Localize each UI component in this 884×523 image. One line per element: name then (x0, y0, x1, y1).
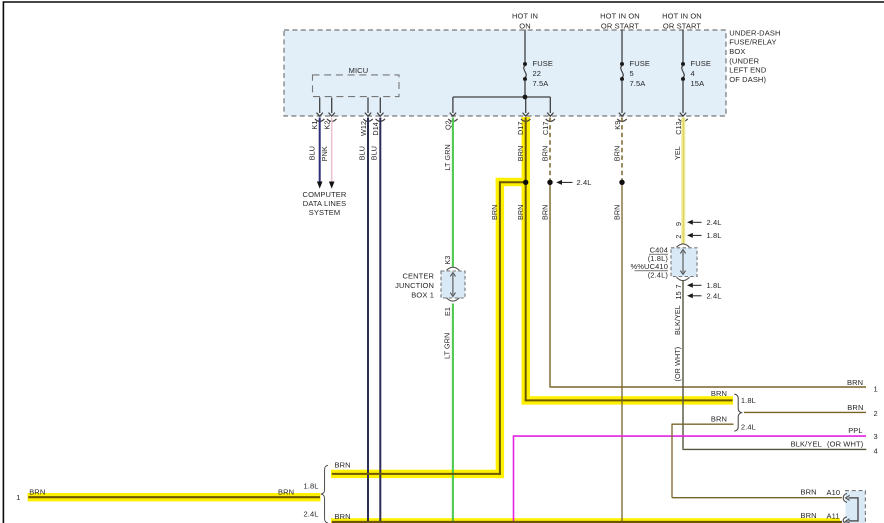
wire YEL C13 (673, 118, 684, 244)
brace 1.8L into circuit 2 (711, 389, 756, 431)
power label HOT IN ON OR START (fuse 5) (600, 11, 640, 30)
svg-text:W12: W12 (359, 121, 368, 136)
wire MICU pin K1 (319, 98, 321, 114)
pin K2 (327, 113, 336, 122)
wire MICU pin W12 (367, 98, 369, 114)
svg-text:K2: K2 (323, 121, 332, 130)
svg-text:BRN: BRN (801, 488, 817, 497)
wire BRN circuit 2 (744, 411, 866, 413)
wire BLU W12 (357, 118, 368, 523)
right edge circuit labels (791, 378, 878, 456)
pin K9 (617, 113, 626, 122)
svg-text:BRN: BRN (847, 378, 863, 387)
svg-text:K9: K9 (613, 121, 622, 130)
svg-text:HOT IN: HOT IN (512, 11, 538, 20)
svg-text:4: 4 (691, 69, 695, 78)
fuse 4 15A (681, 59, 711, 88)
svg-text:5: 5 (630, 69, 634, 78)
wire fuse 4 to pin C13 (682, 80, 684, 113)
svg-text:A10: A10 (827, 488, 841, 497)
pin 15 annotation 2.4L (674, 291, 722, 300)
svg-text:BRN: BRN (540, 146, 549, 161)
svg-text:K1: K1 (310, 121, 319, 130)
pin Q2 (448, 113, 457, 122)
wire BLK/YEL (OR WHT) / circuit 4 (673, 281, 866, 450)
highlighted wire BRN branch (1.8L riser) (490, 181, 526, 475)
svg-text:(UNDER: (UNDER (729, 56, 759, 65)
svg-text:7: 7 (674, 284, 683, 288)
MICU module box (313, 66, 400, 97)
wire HOT feed to fuse 22 (524, 30, 526, 64)
svg-text:15A: 15A (691, 79, 705, 88)
svg-text:1.8L: 1.8L (707, 281, 722, 290)
pin K1 (315, 113, 324, 122)
svg-text:9: 9 (674, 222, 683, 226)
svg-text:Q2: Q2 (443, 120, 452, 130)
svg-text:K3: K3 (443, 256, 452, 265)
label 2.4L arrow at C17 (556, 178, 591, 187)
pin 7 annotation 1.8L (674, 281, 722, 290)
svg-text:1.8L: 1.8L (304, 482, 319, 491)
svg-text:FUSE: FUSE (533, 59, 553, 68)
svg-text:HOT IN ON: HOT IN ON (662, 11, 702, 20)
svg-text:YEL: YEL (673, 146, 682, 160)
svg-text:1.8L: 1.8L (741, 396, 756, 405)
svg-text:BLK/YEL: BLK/YEL (673, 305, 682, 335)
pin C17 (546, 113, 555, 122)
svg-text:BLK/YEL: BLK/YEL (791, 439, 822, 448)
svg-text:BLU: BLU (370, 146, 379, 160)
power label HOT IN ON OR START (fuse 4) (662, 11, 702, 30)
svg-text:(2.4L): (2.4L) (648, 271, 669, 280)
svg-text:1: 1 (874, 385, 878, 394)
svg-text:BRN: BRN (516, 205, 525, 220)
svg-text:BRN: BRN (490, 205, 499, 220)
wire BRN 2.4L feed into circuit 2 (672, 414, 734, 424)
svg-text:C17: C17 (541, 122, 550, 136)
svg-text:7.5A: 7.5A (533, 79, 549, 88)
svg-text:LT GRN: LT GRN (443, 144, 452, 170)
wire HOT feed to fuse 4 (682, 30, 684, 64)
svg-text:BRN: BRN (801, 511, 817, 520)
svg-text:SYSTEM: SYSTEM (309, 208, 341, 217)
node D17 branch junction (523, 180, 528, 185)
connector A10/A11 (843, 491, 866, 523)
svg-text:2.4L: 2.4L (707, 218, 722, 227)
svg-text:15: 15 (674, 291, 683, 299)
svg-text:BRN: BRN (335, 512, 351, 521)
highlighted wire BRN 1.8L branch (332, 461, 501, 474)
wire PNK K2 to computer data lines (320, 118, 334, 189)
svg-text:BRN: BRN (711, 414, 727, 423)
connector C404 / C410 (671, 244, 697, 281)
svg-text:COMPUTER: COMPUTER (303, 190, 347, 199)
label COMPUTER DATA LINES SYSTEM (303, 190, 347, 217)
svg-text:PPL: PPL (848, 426, 863, 435)
wire BLU D14 (370, 118, 381, 523)
svg-text:D14: D14 (371, 122, 380, 136)
pin C13 (678, 113, 687, 122)
wire PPL / circuit 3 (514, 435, 867, 523)
svg-text:2: 2 (674, 234, 683, 238)
label C404 (1.8L) / C410 (2.4L) (630, 246, 668, 280)
wire LT GRN Q2 (443, 118, 453, 523)
pin W12 (363, 113, 372, 122)
svg-text:(OR WHT): (OR WHT) (673, 347, 682, 382)
svg-text:2.4L: 2.4L (577, 178, 592, 187)
brace 2.4L into circuit 2 (741, 423, 756, 432)
pin D14 (376, 113, 385, 122)
svg-text:BRN: BRN (711, 389, 727, 398)
svg-text:E1: E1 (443, 307, 452, 316)
svg-text:1: 1 (16, 493, 20, 502)
svg-text:BRN: BRN (516, 146, 525, 161)
svg-text:BLU: BLU (308, 146, 317, 160)
svg-text:4: 4 (874, 447, 878, 456)
svg-text:BOX 1: BOX 1 (411, 291, 434, 300)
node fuse22 output junction (523, 95, 528, 100)
svg-text:OR START: OR START (663, 22, 701, 31)
svg-text:D17: D17 (516, 122, 525, 136)
svg-text:DATA LINES: DATA LINES (303, 199, 346, 208)
svg-text:FUSE: FUSE (630, 59, 650, 68)
wire BRN C17 / circuit 1 (540, 118, 866, 388)
yellow circuit highlight bands (28, 117, 840, 523)
connector K3/E1 center junction box 1 (441, 256, 465, 317)
svg-text:JUNCTION: JUNCTION (395, 281, 434, 290)
wire MICU pin K2 (331, 98, 333, 114)
svg-text:BRN: BRN (278, 487, 294, 496)
fuse 22 7.5A (523, 59, 553, 88)
svg-text:OR START: OR START (601, 22, 639, 31)
svg-text:BRN: BRN (29, 487, 45, 496)
svg-text:3: 3 (874, 432, 878, 441)
highlighted wire BRN D17 (516, 118, 733, 401)
wire BRN K9 (613, 118, 623, 523)
brace split 1.8L / 2.4L (304, 465, 329, 523)
svg-text:1.8L: 1.8L (707, 231, 722, 240)
svg-text:BRN: BRN (613, 205, 622, 220)
highlighted wire BRN main circuit 1 (bottom left) (16, 487, 320, 502)
under-dash fuse/relay box (284, 28, 781, 116)
svg-text:2.4L: 2.4L (741, 423, 756, 432)
svg-text:FUSE/RELAY: FUSE/RELAY (729, 38, 776, 47)
svg-text:HOT IN ON: HOT IN ON (600, 11, 640, 20)
label CENTER JUNCTION BOX 1 (395, 272, 434, 300)
wire HOT feed to fuse 5 (621, 30, 623, 64)
wire fuse 5 to pin K9 (621, 80, 623, 113)
svg-text:22: 22 (533, 69, 542, 78)
svg-text:BRN: BRN (613, 146, 622, 161)
svg-text:2.4L: 2.4L (707, 292, 722, 301)
svg-text:2.4L: 2.4L (304, 510, 319, 519)
svg-text:A11: A11 (827, 512, 840, 521)
highlighted wire BRN 2.4L branch to A11 (332, 511, 842, 522)
node K9 junction (619, 180, 624, 185)
fuse 5 7.5A (620, 59, 650, 88)
svg-text:(OR WHT): (OR WHT) (827, 439, 864, 448)
svg-text:ON: ON (519, 22, 531, 31)
svg-text:2: 2 (874, 409, 878, 418)
wire BRN down to A10 (672, 424, 842, 498)
svg-text:BRN: BRN (540, 205, 549, 220)
wire fuse 22 output (453, 80, 551, 113)
pin 2 annotation 1.8L (674, 231, 722, 240)
pin D17 (521, 113, 530, 122)
svg-text:BRN: BRN (847, 403, 863, 412)
svg-text:CENTER: CENTER (402, 272, 434, 281)
svg-text:UNDER-DASH: UNDER-DASH (729, 28, 780, 37)
svg-text:MICU: MICU (349, 66, 369, 75)
svg-text:LT GRN: LT GRN (443, 333, 452, 359)
svg-text:OF DASH): OF DASH) (729, 75, 766, 84)
svg-text:BLU: BLU (357, 146, 366, 160)
pin 9 annotation 2.4L (674, 218, 722, 227)
svg-text:PNK: PNK (320, 146, 329, 161)
svg-text:LEFT END: LEFT END (729, 66, 767, 75)
wire BLU K1 to computer data lines (308, 118, 323, 189)
wire MICU pin D14 (379, 98, 381, 114)
node C17 2.4L junction (547, 180, 552, 185)
svg-text:BRN: BRN (335, 461, 351, 470)
power label HOT IN ON (512, 11, 538, 30)
svg-text:FUSE: FUSE (691, 59, 711, 68)
svg-text:7.5A: 7.5A (630, 79, 646, 88)
svg-text:BOX: BOX (729, 47, 745, 56)
